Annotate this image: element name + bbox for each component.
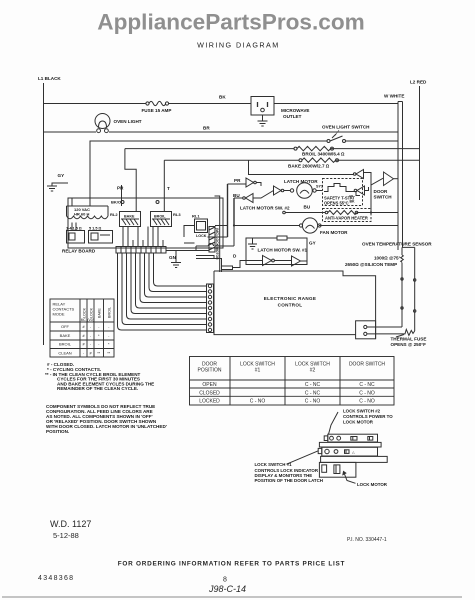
safety t-stat element	[324, 184, 360, 196]
label LATCH MOTOR	[284, 179, 318, 184]
svg-text:DOOR: DOOR	[374, 189, 388, 194]
label BR	[203, 126, 210, 131]
svg-text:C - NO: C - NO	[305, 399, 321, 405]
svg-text:5 1.5 Ω: 5 1.5 Ω	[89, 227, 101, 231]
ERC sensor sub box	[356, 321, 376, 339]
svg-text:BK: BK	[219, 95, 226, 100]
svg-text:C - NC: C - NC	[359, 382, 375, 388]
connector triangle latch motor feed	[274, 186, 284, 195]
label W WHITE	[384, 94, 404, 99]
relay K1 small	[67, 231, 85, 244]
label BROIL RL3	[154, 215, 166, 219]
wire W rail second run	[398, 102, 403, 248]
svg-text:BK/O: BK/O	[111, 200, 121, 205]
svg-text:HR 60 H: HR 60 H	[74, 212, 89, 217]
svg-text:D: D	[233, 254, 237, 259]
svg-text:PR: PR	[117, 186, 124, 191]
svg-text:SWITCH: SWITCH	[374, 195, 393, 200]
relay RL3	[151, 212, 172, 227]
label SAFETY T-STAT	[324, 196, 355, 206]
resistor on SW1 top	[277, 236, 287, 240]
wire RL1 connections	[184, 226, 228, 244]
svg-text:POSITION OF THE DOOR LATCH: POSITION OF THE DOOR LATCH	[255, 478, 323, 483]
sensor leads	[401, 247, 416, 331]
svg-text:OPENS @ 250°F: OPENS @ 250°F	[391, 342, 427, 347]
footer ordering line	[118, 561, 345, 568]
ground GN	[171, 263, 181, 268]
leader lock switch 1	[287, 451, 319, 464]
footer PI NO	[347, 537, 387, 543]
label L2 RED	[410, 80, 427, 85]
svg-text:#: #	[82, 325, 85, 329]
wire relay internal drops	[123, 227, 163, 247]
footer date	[53, 531, 79, 540]
relay K2 small	[89, 231, 113, 244]
wire bundle 7	[145, 253, 207, 297]
lock motor hatch strip	[209, 227, 215, 253]
svg-text:(VD): (VD)	[87, 318, 94, 322]
relay table rotated col headers	[81, 307, 112, 322]
footer part number	[38, 575, 74, 582]
label RL1	[192, 214, 200, 219]
wire stub into ERC top	[215, 196, 220, 272]
label LOCK MOTOR assembly	[357, 482, 388, 487]
svg-text:RL3: RL3	[173, 212, 181, 217]
svg-text:SY1: SY1	[316, 185, 323, 189]
label BU fan	[304, 205, 311, 210]
label LOCK SWITCH 2 note	[343, 409, 393, 425]
svg-text:-: -	[108, 334, 110, 338]
svg-text:BR: BR	[203, 126, 210, 131]
svg-text:FAN MOTOR: FAN MOTOR	[320, 230, 348, 235]
svg-text:BK: BK	[350, 200, 356, 204]
svg-text:#: #	[89, 352, 92, 356]
svg-text:REMAINDER OF THE CLEAN CYCLE.: REMAINDER OF THE CLEAN CYCLE.	[57, 386, 138, 391]
svg-text:FOR ORDERING INFORMATION REFER: FOR ORDERING INFORMATION REFER TO PARTS …	[118, 561, 345, 568]
connector triangle PR	[246, 178, 256, 187]
svg-text:LOCK: LOCK	[196, 234, 207, 238]
ground SW1 internal	[248, 238, 257, 249]
note component symbols	[46, 404, 167, 434]
relay contacts table grid	[50, 299, 114, 357]
label L1 BLACK	[38, 76, 61, 81]
svg-text:POSITION: POSITION	[198, 368, 222, 374]
wire BU stub	[234, 191, 274, 199]
label 1.5 ohm	[66, 227, 82, 231]
label MICROWAVE OUTLET	[281, 108, 310, 119]
wire bundle 8	[149, 253, 207, 292]
wire t-stat junction vertical	[370, 185, 372, 213]
footer WD 1127	[50, 519, 91, 529]
bake element 2600W	[299, 158, 339, 162]
svg-text:5-12-88: 5-12-88	[53, 531, 79, 540]
label BK	[219, 95, 226, 100]
relay table cells	[82, 325, 110, 356]
anti-vapor heater dashed box	[323, 209, 372, 222]
label PR door	[234, 178, 241, 183]
broil element 3400W	[294, 146, 334, 150]
connector triangle SW1 b	[292, 256, 308, 266]
connector triangle door top	[353, 170, 363, 179]
svg-text:W WHITE: W WHITE	[384, 94, 404, 99]
wire transformer left drop	[89, 141, 91, 206]
label D upper	[233, 254, 237, 259]
svg-text:GY: GY	[58, 173, 65, 178]
wire oven light BR line	[44, 131, 399, 133]
svg-text:L1 BLACK: L1 BLACK	[38, 76, 61, 81]
label 51.5 ohm	[89, 227, 101, 231]
door table rows	[199, 382, 375, 405]
svg-text:C - NO: C - NO	[359, 399, 375, 405]
svg-text:P.I. NO. 330447-1: P.I. NO. 330447-1	[347, 537, 387, 543]
svg-text:THERMAL FUSE: THERMAL FUSE	[391, 337, 427, 342]
label FUSE 15 AMP	[142, 108, 172, 113]
oven light switch	[327, 134, 346, 143]
svg-text:GN: GN	[169, 255, 177, 260]
svg-text:BROIL: BROIL	[59, 342, 72, 347]
svg-text:OVEN LIGHT SWITCH: OVEN LIGHT SWITCH	[322, 125, 370, 130]
label LATCH MOTOR SW 2	[240, 206, 290, 211]
relay RL1	[195, 219, 208, 233]
wire bundle 2	[122, 253, 207, 325]
relay RL2	[120, 212, 141, 227]
svg-text:△: △	[352, 451, 355, 455]
svg-text:BU: BU	[304, 205, 311, 210]
label BK O	[111, 200, 121, 205]
wire transformer secondary drops	[72, 223, 76, 231]
label DOOR SWITCH	[374, 189, 393, 200]
terminal circles relay tops	[121, 201, 159, 204]
svg-text:POSITION.: POSITION.	[46, 429, 69, 434]
wire top L1 line	[44, 103, 399, 105]
svg-text:LOCK SWITCH #1: LOCK SWITCH #1	[255, 462, 293, 467]
svg-text:2650Ω @SILICON TEMP: 2650Ω @SILICON TEMP	[345, 262, 397, 267]
lock assembly bar2	[319, 442, 381, 447]
label ANTI-VAPOR HEATER	[325, 216, 368, 221]
svg-text:BROIL: BROIL	[108, 307, 112, 318]
svg-text:LOCK MOTOR: LOCK MOTOR	[343, 420, 374, 425]
wire broil line	[125, 148, 420, 150]
svg-text:C - NC: C - NC	[305, 382, 321, 388]
latch motor M	[284, 183, 322, 199]
wire sensor pin 2 + thermal fuse	[364, 329, 415, 335]
wire PR stub	[228, 183, 262, 187]
svg-text:WIRING DIAGRAM: WIRING DIAGRAM	[197, 41, 280, 50]
wire vertical x90 to relay board	[89, 141, 91, 199]
junction dots	[233, 211, 372, 226]
svg-text:LOCK: LOCK	[83, 307, 87, 318]
svg-text:ANTI-VAPOR HEATER: ANTI-VAPOR HEATER	[325, 216, 368, 221]
wire GN stub	[166, 251, 176, 263]
lock assembly motor box	[319, 462, 356, 477]
label LOCK	[196, 234, 207, 238]
svg-text:#: #	[82, 343, 85, 347]
svg-text:LOCK SWITCH #2: LOCK SWITCH #2	[343, 409, 381, 414]
footer handwritten	[208, 584, 246, 594]
svg-text:MC: MC	[81, 318, 87, 322]
svg-text:-: -	[90, 334, 92, 338]
W WHITE rail	[397, 102, 399, 251]
svg-text:CLOSED: CLOSED	[199, 390, 220, 396]
svg-text:1-4 1.5 Ω: 1-4 1.5 Ω	[66, 227, 82, 231]
svg-text:CLEAN: CLEAN	[58, 351, 71, 356]
lock assembly bar4	[321, 456, 388, 462]
svg-text:-: -	[98, 343, 100, 347]
title WIRING DIAGRAM	[197, 41, 280, 50]
svg-text:BAKE: BAKE	[98, 308, 102, 318]
microwave outlet box	[251, 97, 274, 116]
label LOCK SWITCH 1 note	[255, 462, 323, 483]
wire door line right	[364, 173, 384, 186]
label BAKE RL2	[124, 215, 135, 219]
svg-text:ELECTRONIC RANGE: ELECTRONIC RANGE	[264, 296, 317, 301]
transformer T1	[67, 198, 109, 219]
connector strip relay board	[116, 247, 166, 254]
label MC LOCK MOTOR	[215, 228, 219, 260]
fuse F1 15A	[146, 101, 169, 105]
bottom edge line	[2, 596, 462, 598]
label GN	[169, 255, 177, 260]
svg-text:-: -	[83, 352, 85, 356]
wire bundle 4	[131, 253, 207, 314]
svg-text:PR: PR	[234, 178, 241, 183]
svg-text:OUTLET: OUTLET	[283, 114, 302, 119]
wire PR thick drop	[227, 184, 229, 237]
wire bake corner to RL3	[163, 160, 165, 211]
svg-text:OFF: OFF	[61, 324, 70, 329]
svg-text:BAKE: BAKE	[124, 215, 135, 219]
svg-text:BAKE: BAKE	[60, 333, 71, 338]
svg-text:BROIL: BROIL	[154, 215, 166, 219]
wire anti-vapor line	[283, 211, 398, 214]
svg-text:OPEN: OPEN	[202, 382, 217, 388]
svg-text:(MC) LOCK MOTOR: (MC) LOCK MOTOR	[215, 228, 219, 260]
svg-text:DOOR SWITCH: DOOR SWITCH	[349, 362, 385, 368]
label RL2	[110, 212, 118, 217]
label ELECTRONIC RANGE CONTROL	[264, 296, 317, 308]
wire bundle 1	[118, 253, 207, 330]
wire sensor pin 1	[364, 325, 402, 328]
wire bundle 6	[140, 253, 207, 303]
ERC box	[214, 271, 376, 339]
relay board box	[68, 198, 223, 248]
svg-text:LOCK: LOCK	[90, 307, 94, 318]
wire D lines into ERC	[196, 256, 222, 273]
wire broil corner to RL2	[125, 149, 136, 212]
svg-text:*: *	[108, 343, 110, 347]
leader lock switch 2	[329, 412, 339, 434]
svg-text:LOCKED: LOCKED	[199, 399, 220, 405]
svg-text:T: T	[167, 186, 170, 191]
svg-text:8: 8	[223, 577, 227, 584]
L1 rail	[43, 83, 45, 345]
lock assembly bar3	[318, 447, 377, 456]
label OVEN TEMPERATURE SENSOR	[362, 242, 432, 247]
svg-text:LOCK MOTOR: LOCK MOTOR	[357, 482, 388, 487]
svg-text:RL1: RL1	[192, 214, 200, 219]
svg-text:W.D. 1127: W.D. 1127	[50, 519, 91, 529]
svg-text:#2: #2	[310, 368, 316, 374]
L2 rail	[419, 86, 421, 200]
wire lock arc to strip	[166, 226, 234, 251]
svg-text:#: #	[82, 334, 85, 338]
connector triangle BU	[243, 194, 253, 203]
label 2650 ohm	[345, 262, 397, 267]
label RELAY BOARD	[62, 249, 96, 254]
svg-text:RELAY BOARD: RELAY BOARD	[62, 249, 96, 254]
lock assembly bar1	[324, 434, 377, 442]
latch SW1 box	[246, 238, 307, 265]
wire fan line	[234, 225, 398, 227]
label FAN MOTOR	[320, 230, 348, 235]
door position table grid	[190, 357, 395, 406]
svg-text:OVEN LIGHT: OVEN LIGHT	[114, 119, 142, 124]
resistor D small	[222, 266, 233, 270]
svg-text:BAKE 2600W/2.7 Ω: BAKE 2600W/2.7 Ω	[288, 164, 330, 169]
label BU door	[233, 193, 240, 198]
relay table header text	[53, 302, 75, 317]
safety t-stat dashed box	[323, 179, 363, 206]
svg-text:AppliancePartsPros.com: AppliancePartsPros.com	[97, 9, 364, 34]
footer page number	[223, 577, 227, 584]
ERC pin header left	[207, 284, 214, 333]
label W BK door	[350, 195, 356, 204]
wire bundle 5	[136, 253, 207, 308]
svg-text:LATCH MOTOR SW. #1: LATCH MOTOR SW. #1	[258, 248, 308, 253]
svg-text:C - NO: C - NO	[250, 399, 266, 405]
door table header text	[198, 362, 386, 374]
label GY sw1	[309, 241, 316, 246]
label 1000 ohm	[374, 256, 401, 261]
svg-text:-: -	[90, 343, 92, 347]
svg-text:#1: #1	[255, 368, 261, 374]
svg-text:J98-C-14: J98-C-14	[208, 584, 246, 594]
label SY1	[316, 185, 323, 189]
svg-text:-: -	[98, 325, 100, 329]
svg-text:**: **	[97, 352, 100, 356]
anti-vapor heater element	[325, 211, 358, 215]
label BAKE 2600W	[288, 164, 330, 169]
svg-text:GY: GY	[309, 241, 316, 246]
svg-text:LATCH MOTOR: LATCH MOTOR	[284, 179, 318, 184]
ground microwave outlet	[258, 115, 268, 126]
svg-text:-: -	[90, 325, 92, 329]
label T relay	[167, 186, 170, 191]
svg-text:BU: BU	[233, 193, 240, 198]
thermal fuse arrow	[396, 335, 404, 338]
svg-text:4348368: 4348368	[38, 575, 74, 582]
svg-text:MICROWAVE: MICROWAVE	[281, 108, 310, 113]
wire line3	[90, 140, 398, 142]
wire bake drop to door line	[249, 160, 354, 174]
oven light bulb	[95, 114, 110, 133]
label RL3	[173, 212, 181, 217]
header watermark	[97, 9, 364, 34]
svg-text:MODE: MODE	[53, 312, 65, 317]
svg-text:RL2: RL2	[110, 212, 118, 217]
label PR relay	[117, 186, 124, 191]
wire PR relay drop	[121, 185, 123, 206]
wire BU thick drop	[233, 198, 235, 226]
svg-text:BROIL 3400W/6.4 Ω: BROIL 3400W/6.4 Ω	[302, 152, 345, 157]
connector triangle SW1 a	[263, 256, 292, 266]
connector triangle t-stat out	[354, 186, 368, 195]
svg-text:**: **	[107, 352, 110, 356]
wire bundle 3	[127, 253, 207, 319]
label OVEN LIGHT SWITCH	[322, 125, 370, 136]
svg-text:LATCH MOTOR SW. #2: LATCH MOTOR SW. #2	[240, 206, 290, 211]
svg-text:FUSE 15 AMP: FUSE 15 AMP	[142, 108, 172, 113]
leader lock motor arrow	[343, 472, 356, 484]
wire bundle 9	[154, 253, 207, 286]
svg-text:C - NC: C - NC	[305, 390, 321, 396]
door switch triangle	[384, 172, 399, 186]
svg-text:1000Ω @75°: 1000Ω @75°	[374, 256, 401, 261]
ground GY left	[47, 183, 68, 191]
svg-text:C - NO: C - NO	[359, 390, 375, 396]
svg-text:CONTROL: CONTROL	[278, 303, 303, 308]
label 120 VAC	[74, 207, 90, 217]
fan motor	[299, 218, 321, 233]
svg-text:*: *	[98, 334, 100, 338]
note closed legend	[45, 362, 154, 391]
wire bake line	[164, 159, 419, 161]
svg-text:L2 RED: L2 RED	[410, 80, 427, 85]
wire D to SW1	[233, 261, 263, 268]
svg-text:OVEN TEMPERATURE SENSOR: OVEN TEMPERATURE SENSOR	[362, 242, 432, 247]
svg-text:CONTROLS POWER TO: CONTROLS POWER TO	[343, 414, 393, 419]
label BROIL 3400W	[302, 152, 345, 157]
svg-text:OPENS 55°C: OPENS 55°C	[324, 201, 349, 206]
relay table row labels	[58, 324, 71, 356]
label GY left	[58, 173, 65, 178]
svg-text:-: -	[108, 325, 110, 329]
label OVEN LIGHT	[114, 119, 142, 124]
label THERMAL FUSE	[391, 337, 427, 347]
label LATCH MOTOR SW 1	[258, 248, 308, 253]
